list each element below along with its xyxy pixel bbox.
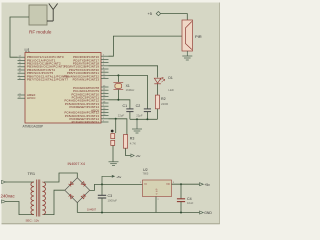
wire +5V to PIR bbox=[161, 14, 188, 20]
bridge diode 2 bbox=[81, 182, 86, 187]
wire U1 pin to LED bbox=[109, 66, 158, 78]
svg-text:+5: +5 bbox=[148, 11, 152, 16]
antenna bbox=[47, 4, 58, 22]
wire R3 to +5v bbox=[126, 148, 131, 155]
svg-text:4.7K: 4.7K bbox=[130, 141, 136, 145]
node C2 ground bbox=[146, 118, 148, 120]
svg-text:U1: U1 bbox=[25, 48, 31, 53]
node C4 top bbox=[180, 183, 182, 185]
wire junction to button bbox=[115, 119, 117, 133]
node C3 top bbox=[101, 183, 103, 185]
RF module box bbox=[29, 5, 52, 35]
svg-text:LED: LED bbox=[168, 88, 173, 92]
svg-text:VO: VO bbox=[166, 183, 170, 186]
ground under button bbox=[109, 162, 119, 166]
svg-text:ATMEGA328P: ATMEGA328P bbox=[23, 125, 44, 129]
svg-text:X1: X1 bbox=[126, 84, 130, 88]
svg-text:PB7/TOSC2/XTAL2/PCINT7: PB7/TOSC2/XTAL2/PCINT7 bbox=[27, 78, 68, 82]
wire U1 pin to PIR bbox=[109, 36, 183, 56]
wire RESET pin to R3 bbox=[109, 119, 127, 135]
U1 right pin numbers bbox=[103, 55, 106, 123]
svg-text:10uF: 10uF bbox=[187, 201, 194, 205]
svg-text:GND: GND bbox=[204, 211, 212, 215]
node C3 bottom bbox=[101, 212, 103, 214]
svg-text:240vac: 240vac bbox=[1, 194, 16, 199]
svg-text:R2: R2 bbox=[161, 97, 166, 101]
ground under PIR bbox=[182, 51, 192, 60]
ground rail bbox=[77, 212, 199, 214]
wire XTAL1 pin to C2 bbox=[109, 75, 148, 109]
U1 left pin names bbox=[27, 55, 68, 100]
wire LED to R2 bbox=[157, 84, 159, 95]
wire transformer sec bottom to bridge bbox=[44, 190, 65, 214]
U1 left pin stubs bbox=[18, 57, 26, 98]
node crystal bottom bbox=[117, 99, 119, 101]
wire bridge plus to U2 bbox=[90, 184, 143, 190]
wire bridge minus to ground rail bbox=[76, 203, 78, 213]
capacitor C4 bbox=[177, 184, 194, 212]
svg-text:+5v: +5v bbox=[204, 183, 210, 187]
svg-text:SEC : 12v: SEC : 12v bbox=[26, 219, 40, 223]
svg-text:+5v: +5v bbox=[136, 154, 141, 158]
svg-text:22pF: 22pF bbox=[118, 113, 125, 117]
bridge diode 4 bbox=[81, 194, 86, 199]
wire XTAL2 pin to C1 bbox=[109, 100, 130, 109]
svg-text:7805: 7805 bbox=[143, 171, 149, 175]
svg-text:U2: U2 bbox=[143, 168, 148, 172]
svg-text:VI: VI bbox=[144, 183, 147, 186]
svg-text:22pF: 22pF bbox=[136, 113, 143, 117]
MCU U1 bbox=[23, 48, 102, 129]
svg-text:TR1: TR1 bbox=[28, 171, 36, 176]
svg-text:C2: C2 bbox=[136, 104, 141, 108]
capacitor C3 bbox=[98, 184, 117, 212]
svg-text:RF module: RF module bbox=[29, 30, 52, 35]
wire transformer sec top to bridge bbox=[44, 173, 77, 182]
svg-text:R3: R3 bbox=[130, 136, 135, 140]
U1 left pin numbers bbox=[19, 56, 22, 99]
wire R2 to ground rail bbox=[156, 109, 158, 120]
bridge diode 3 bbox=[69, 194, 74, 199]
ground under C1 C2 bbox=[132, 119, 142, 133]
PIR sensor bbox=[182, 20, 202, 51]
LED D1 bbox=[154, 76, 174, 92]
240vac source label bbox=[1, 180, 16, 203]
svg-text:1N4007: 1N4007 bbox=[87, 208, 97, 212]
ground rail under C1 C2 bbox=[130, 118, 158, 120]
svg-text:IN4007 X4: IN4007 X4 bbox=[68, 162, 85, 166]
regulator U2 7805 bbox=[140, 168, 175, 201]
svg-text:PIR: PIR bbox=[195, 34, 202, 39]
crystal X1 bbox=[113, 75, 135, 99]
node reset junction bbox=[115, 118, 117, 120]
+5v tap label at C3 bbox=[102, 175, 122, 185]
svg-text:1000uF: 1000uF bbox=[108, 198, 118, 202]
svg-text:D1: D1 bbox=[168, 76, 172, 80]
capacitor C2 bbox=[136, 104, 151, 119]
svg-text:+5v: +5v bbox=[116, 175, 121, 179]
svg-text:C1: C1 bbox=[123, 104, 128, 108]
svg-text:PC3/ADC3/PCINT11: PC3/ADC3/PCINT11 bbox=[72, 120, 100, 124]
U1 right pin stubs bbox=[101, 56, 109, 122]
wire U2 ground leg bbox=[155, 197, 157, 213]
svg-text:PD7/AIN1/PCINT23: PD7/AIN1/PCINT23 bbox=[73, 78, 100, 82]
capacitor C1 bbox=[118, 104, 134, 119]
bridge rectifier frame bbox=[65, 178, 90, 203]
bridge diode 1 bbox=[69, 182, 74, 187]
resistor R2 bbox=[155, 95, 169, 109]
node crystal top bbox=[117, 74, 119, 76]
resistor R3 bbox=[123, 135, 136, 149]
svg-text:220R: 220R bbox=[161, 102, 169, 106]
+5v output terminal bbox=[200, 183, 211, 187]
GND output terminal bbox=[200, 211, 213, 215]
+5V power symbol bbox=[148, 11, 161, 16]
button terminal node bbox=[111, 130, 114, 133]
sheet background bbox=[0, 0, 222, 227]
node ground stem bbox=[136, 118, 138, 120]
wire U2 output bbox=[172, 183, 200, 185]
svg-text:16MHz: 16MHz bbox=[126, 88, 135, 92]
+5v arrow at R3 bbox=[131, 154, 141, 158]
transformer TR1 bbox=[26, 171, 46, 223]
wire mains top to transformer bbox=[6, 181, 34, 183]
U1 right pin names bbox=[64, 55, 100, 124]
wire mains bottom to transformer bbox=[6, 202, 34, 215]
push button bbox=[111, 134, 115, 162]
svg-text:AVCC: AVCC bbox=[27, 96, 36, 100]
node C4 bottom bbox=[180, 212, 182, 214]
wire RF module to U1 pin bbox=[10, 17, 29, 57]
